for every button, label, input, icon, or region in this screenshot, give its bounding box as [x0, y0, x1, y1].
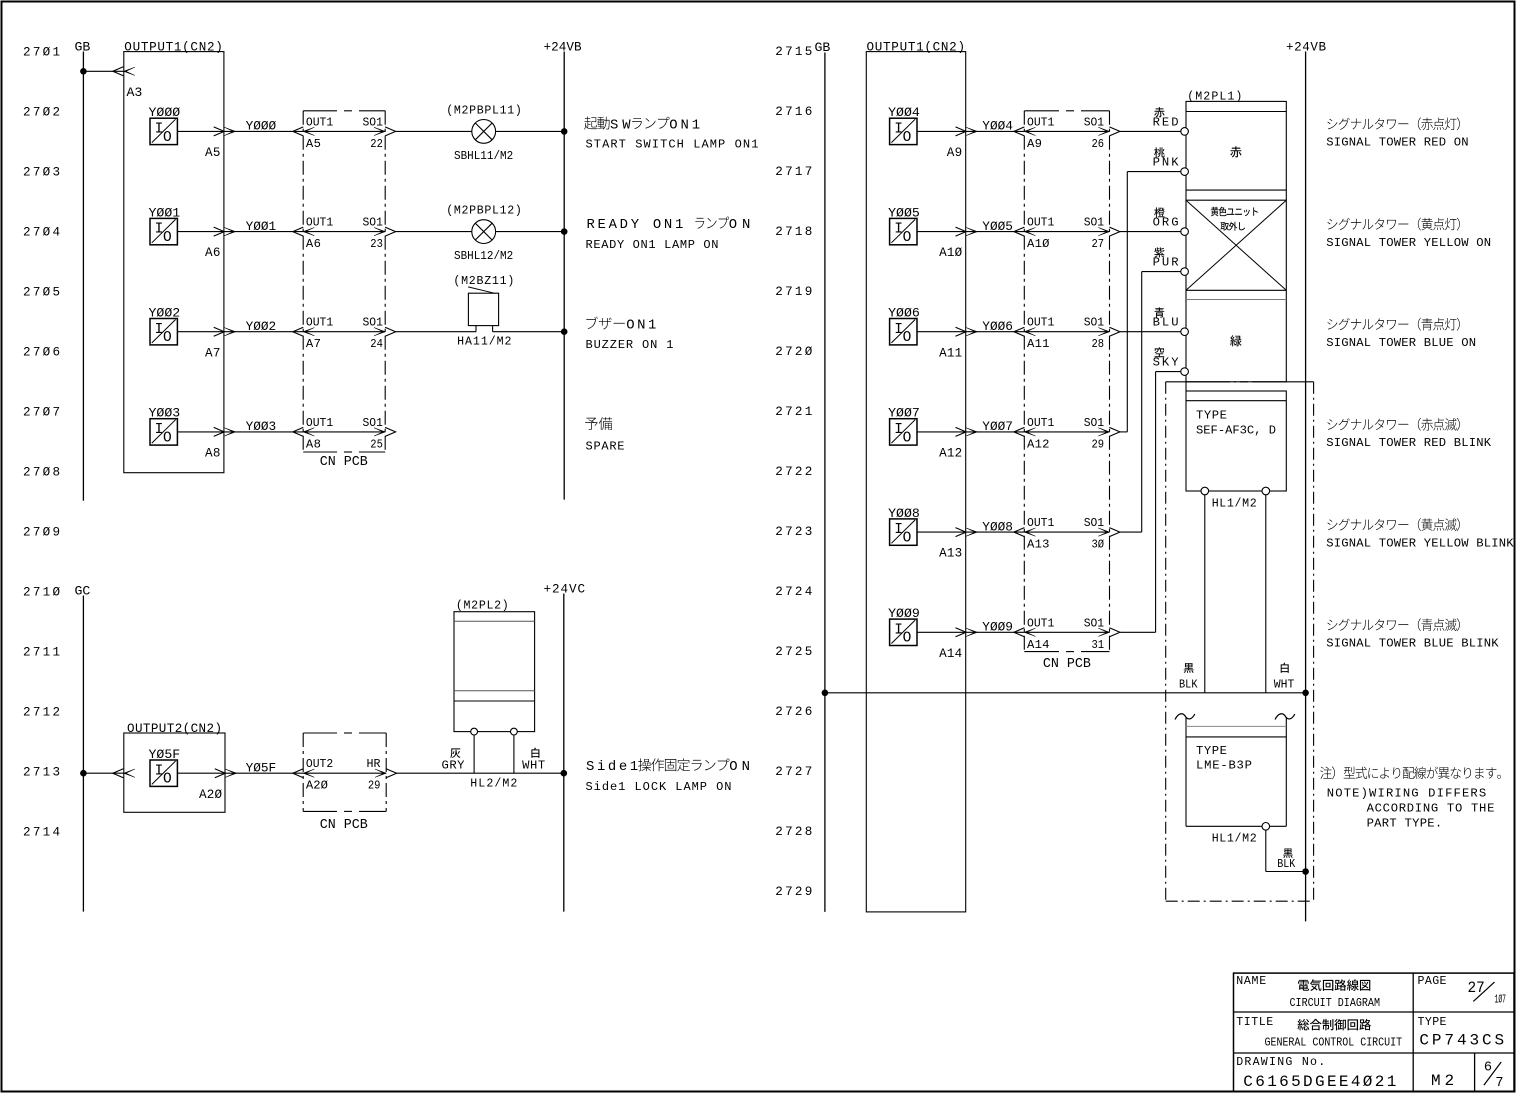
svg-text:SO1: SO1 [363, 115, 383, 129]
svg-text:HL1/M2: HL1/M2 [1212, 833, 1257, 846]
svg-text:YØØ4: YØØ4 [982, 119, 1013, 134]
wire Y004 through CN PCB right [1024, 130, 1109, 132]
svg-text:A1Ø: A1Ø [939, 246, 963, 260]
svg-text:SO1: SO1 [1084, 516, 1104, 530]
CN PCB right-half right crossing arrows row Y007 [1098, 428, 1109, 436]
connector pin A6 arrows out of OUTPUT1 [214, 227, 225, 236]
svg-text:28: 28 [1092, 337, 1105, 351]
caption signal tower row 2 JP [1327, 218, 1459, 231]
caption buzzer JP [586, 317, 656, 334]
svg-text:SIGNAL TOWER YELLOW BLINK: SIGNAL TOWER YELLOW BLINK [1326, 536, 1514, 550]
caption signal tower row 1 JP [1327, 117, 1459, 130]
bus GC rail [82, 596, 84, 912]
wire color label WHT (SEF) [1281, 663, 1289, 673]
segment green lamp label [1230, 335, 1241, 346]
svg-text:A8: A8 [205, 447, 220, 461]
svg-text:O: O [903, 531, 912, 547]
svg-text:7: 7 [1495, 1076, 1503, 1091]
wire color label BLU [1155, 307, 1165, 317]
connector pin A9 arrows out of OUTPUT1 right [956, 127, 967, 136]
svg-text:HL1/M2: HL1/M2 [1212, 498, 1257, 511]
svg-text:O: O [903, 330, 912, 346]
output element Y003 I/O symbol [150, 419, 177, 445]
segment yellow removed X cross [1186, 200, 1286, 290]
wire Y006 through CN PCB right [1024, 331, 1109, 333]
lamp SBHL12/M2 (ready lamp) [472, 220, 496, 244]
svg-text:SO1: SO1 [1084, 115, 1104, 129]
terminal circle BLK on SEF unit [1201, 487, 1209, 495]
svg-text:ORG: ORG [1153, 216, 1179, 230]
wire HR to lamp unit HL2 [396, 772, 564, 774]
CN PCB right-half left crossing arrows row Y005 [1014, 227, 1025, 236]
svg-text:GB: GB [815, 40, 831, 55]
wire Y007 through CN PCB right [1024, 431, 1109, 433]
svg-text:YØØ2: YØØ2 [246, 319, 277, 334]
svg-text:I: I [894, 322, 903, 338]
wire Y008 to CN PCB right [966, 531, 1025, 533]
svg-text:TITLE: TITLE [1236, 1016, 1273, 1029]
CN PCB right-half left crossing arrows row Y009 [1014, 628, 1025, 637]
connector pin A12 arrows out of OUTPUT1 right [956, 427, 967, 436]
svg-text:LME-B3P: LME-B3P [1196, 759, 1252, 773]
wire Y009 inside OUTPUT1 right [917, 631, 966, 633]
bus +24VB rail (right) [1305, 52, 1307, 922]
svg-text:31: 31 [1092, 638, 1105, 652]
wire Y009 through CN PCB right [1024, 631, 1109, 633]
alternative wiring dash-dot box [1165, 382, 1167, 901]
terminal circle GRY on HL2 [471, 728, 478, 735]
terminal circle WHT on HL2 [511, 728, 518, 735]
connector block OUTPUT1(CN2) box (right) [866, 52, 965, 912]
wire color label WHT [531, 748, 539, 758]
svg-text:A7: A7 [205, 346, 220, 360]
svg-text:BLK: BLK [1277, 857, 1296, 871]
CN PCB right-half right crossing arrows row Y006 [1098, 328, 1109, 336]
caption signal tower row 3 JP [1327, 318, 1459, 331]
svg-text:SIGNAL TOWER BLUE ON: SIGNAL TOWER BLUE ON [1326, 336, 1476, 350]
wire Y006 inside OUTPUT1 right [917, 331, 966, 333]
svg-text:I: I [894, 122, 903, 138]
output element Y005 I/O symbol [890, 218, 917, 244]
caption signal tower row 5 JP [1327, 518, 1459, 531]
svg-text:I: I [155, 222, 164, 238]
caption start switch lamp JP [584, 117, 700, 134]
svg-text:3Ø: 3Ø [1092, 538, 1105, 552]
node junction +24VB row 2704 [561, 228, 568, 235]
svg-text:DRAWING No.: DRAWING No. [1236, 1056, 1325, 1069]
title block dividers [1234, 1011, 1515, 1013]
wire Y001 to CN PCB [224, 231, 303, 233]
svg-text:WHT: WHT [1274, 678, 1295, 692]
wire WHT riser [513, 735, 515, 773]
svg-text:OUT1: OUT1 [306, 216, 333, 230]
svg-text:A14: A14 [1027, 638, 1050, 652]
svg-text:SBHL11/M2: SBHL11/M2 [454, 150, 513, 163]
svg-text:SO1: SO1 [363, 316, 383, 330]
svg-text:SIGNAL TOWER BLUE BLINK: SIGNAL TOWER BLUE BLINK [1326, 637, 1499, 651]
wire Y008 inside OUTPUT1 right [917, 531, 966, 533]
svg-text:SO1: SO1 [1084, 416, 1104, 430]
node junction GB return [822, 690, 829, 697]
svg-text:A14: A14 [939, 647, 962, 661]
svg-text:A12: A12 [939, 447, 962, 461]
connector pin A7 arrows out of OUTPUT1 [214, 327, 225, 336]
title block title JP [1297, 1019, 1371, 1031]
svg-text:O: O [163, 130, 172, 146]
wire Y005 to CN PCB right [966, 231, 1025, 233]
terminal circle BLK on LME unit [1262, 823, 1270, 831]
svg-text:I: I [155, 763, 164, 779]
svg-text:26: 26 [1092, 137, 1105, 151]
CN PCB right-half right crossing arrows row Y008 [1098, 528, 1109, 536]
svg-text:HA11/M2: HA11/M2 [457, 336, 511, 349]
svg-text:OUTPUT2(CN2): OUTPUT2(CN2) [127, 722, 222, 736]
svg-text:29: 29 [1092, 437, 1105, 451]
CN PCB right crossing arrows row Y003 [374, 428, 385, 436]
CN PCB left crossing arrows row Y002 [293, 327, 304, 336]
CN PCB right-half left crossing arrows row Y007 [1014, 427, 1025, 436]
wire WHT riser from SEF [1265, 495, 1267, 693]
svg-text:I: I [894, 522, 903, 538]
svg-text:TYPE: TYPE [1196, 744, 1227, 758]
svg-text:6: 6 [1484, 1061, 1492, 1076]
wire Y05F inside OUTPUT2 [177, 772, 225, 774]
svg-text:O: O [903, 230, 912, 246]
terminal circles on M2PL1 [1181, 128, 1189, 136]
svg-text:READY ON1 LAMP ON: READY ON1 LAMP ON [586, 238, 719, 252]
svg-text:YØØØ: YØØØ [246, 119, 277, 134]
connector pin A13 arrows out of OUTPUT1 right [956, 528, 967, 537]
wire Y002 through CN PCB [303, 331, 385, 333]
wire Y002 to buzzer [396, 331, 476, 333]
wire Y001 to lamp SBHL12 [396, 231, 472, 233]
caption signal tower row 4 JP [1327, 418, 1459, 431]
connector pin A10 arrows out of OUTPUT1 right [956, 227, 967, 236]
svg-text:A5: A5 [306, 137, 321, 151]
connector pin A5 arrows out of OUTPUT1 [214, 127, 225, 136]
wire Y005 to ORG terminal [1120, 231, 1181, 233]
wire Y004 to RED terminal [1120, 130, 1181, 132]
CN PCB 2 right crossing arrows [375, 769, 386, 777]
wire Y000 through CN PCB [303, 130, 385, 132]
svg-text:YØØ5: YØØ5 [982, 219, 1013, 234]
wire GB to +24VB return row 2726 [825, 692, 1306, 694]
CN PCB right-half left crossing arrows row Y006 [1014, 327, 1025, 336]
svg-text:(M2PBPL11): (M2PBPL11) [446, 104, 522, 117]
segment yellow unit removed text [1211, 207, 1258, 217]
svg-text:I: I [155, 122, 164, 138]
svg-text:SO1: SO1 [363, 416, 383, 430]
note about wiring JP [1320, 766, 1501, 779]
node junction +24VC row 2713 [561, 770, 568, 777]
output element Y000 I/O symbol [150, 118, 177, 144]
svg-text:TYPE: TYPE [1196, 408, 1227, 422]
CN PCB right-half left crossing arrows row Y008 [1014, 528, 1025, 537]
svg-text:YØ5F: YØ5F [246, 761, 277, 776]
interface board CN PCB box (right) [1023, 111, 1025, 652]
wire lamp SBHL11 to +24VB [496, 130, 565, 132]
wire color label GRY [450, 748, 460, 758]
svg-text:SO1: SO1 [1084, 616, 1104, 630]
svg-text:YØØ1: YØØ1 [246, 219, 277, 234]
svg-text:PART TYPE.: PART TYPE. [1367, 817, 1443, 831]
lamp unit HL2/M2 body [454, 612, 535, 732]
svg-text:SKY: SKY [1153, 356, 1180, 370]
wire SKY circle to SEF box edge [1185, 382, 1187, 391]
svg-text:271Ø: 271Ø [23, 586, 60, 600]
svg-text:O: O [163, 330, 172, 346]
svg-text:A2Ø: A2Ø [306, 779, 328, 793]
wire Y005 inside OUTPUT1 right [917, 231, 966, 233]
svg-text:(M2PL2): (M2PL2) [456, 600, 509, 613]
svg-text:22: 22 [370, 137, 383, 151]
wire Y006 to BLU terminal [1120, 331, 1181, 333]
wire color label PUR [1154, 247, 1164, 257]
svg-text:A1Ø: A1Ø [1027, 237, 1050, 251]
svg-text:A13: A13 [1027, 538, 1050, 552]
bus +24VB rail (left) [563, 52, 565, 500]
CN PCB right crossing arrows row Y001 [374, 228, 385, 236]
svg-text:ON1: ON1 [669, 117, 700, 133]
svg-text:O: O [903, 631, 912, 647]
wire color label BLK (SEF) [1184, 663, 1194, 673]
svg-text:I: I [894, 222, 903, 238]
svg-text:O: O [163, 772, 172, 788]
CN PCB right-half right crossing arrows row Y004 [1098, 127, 1109, 135]
CN PCB right-half right crossing arrows row Y005 [1098, 228, 1109, 236]
svg-text:PAGE: PAGE [1418, 975, 1447, 988]
svg-text:OUT1: OUT1 [306, 115, 333, 129]
svg-text:YØØ6: YØØ6 [982, 319, 1013, 334]
svg-text:OUT1: OUT1 [306, 316, 333, 330]
svg-text:A13: A13 [939, 547, 962, 561]
title block drawing name JP [1298, 979, 1370, 991]
svg-text:25: 25 [370, 437, 383, 451]
wire BLK from LME to +24VB [1265, 830, 1267, 871]
signal tower unit M2PL1 body [1186, 101, 1286, 381]
output element Y001 I/O symbol [150, 218, 177, 244]
svg-text:Side1: Side1 [586, 759, 638, 775]
wire Y009 to SKY terminal [1120, 631, 1156, 633]
caption side1 lock lamp JP [586, 758, 750, 775]
svg-text:WHT: WHT [522, 759, 545, 773]
connector block OUTPUT2(CN2) box [124, 733, 225, 812]
svg-text:HR: HR [367, 757, 381, 771]
wire Y006 to CN PCB right [966, 331, 1025, 333]
svg-text:SBHL12/M2: SBHL12/M2 [454, 250, 513, 263]
connector pin A14 arrows out of OUTPUT1 right [956, 628, 967, 637]
svg-text:OUT1: OUT1 [1027, 216, 1054, 230]
svg-text:I: I [155, 322, 164, 338]
svg-text:I: I [894, 622, 903, 638]
node GB junction at A3 wire [80, 68, 87, 75]
svg-text:TYPE: TYPE [1418, 1016, 1447, 1029]
svg-text:CN PCB: CN PCB [320, 818, 368, 833]
CN PCB left crossing arrows row Y001 [293, 227, 304, 236]
wire Y007 inside OUTPUT1 right [917, 431, 966, 433]
svg-text:+24VC: +24VC [544, 583, 586, 597]
svg-text:A9: A9 [1027, 137, 1042, 151]
terminal circle WHT on SEF unit [1262, 487, 1270, 495]
interface board CN PCB box (left) [302, 111, 304, 452]
wire Y003 through CN PCB [303, 431, 385, 433]
blink unit TYPE LME-B3P break marks [1175, 714, 1195, 720]
svg-text:YØØ9: YØØ9 [982, 620, 1013, 635]
wire Y004 inside OUTPUT1 right [917, 130, 966, 132]
svg-text:HL2/M2: HL2/M2 [470, 778, 517, 791]
svg-text:SIGNAL TOWER RED ON: SIGNAL TOWER RED ON [1326, 136, 1468, 150]
svg-text:OUT1: OUT1 [1027, 616, 1054, 630]
wire color label PNK [1154, 147, 1164, 157]
connector arrow A3 into OUTPUT1 [113, 67, 124, 76]
CN PCB right-half right crossing arrows row Y009 [1098, 628, 1109, 636]
svg-text:A9: A9 [947, 146, 962, 160]
connector pin A20 arrows out of OUTPUT2 [215, 769, 226, 778]
svg-text:A5: A5 [205, 146, 220, 160]
svg-text:BUZZER ON 1: BUZZER ON 1 [586, 338, 674, 352]
CN PCB left crossing arrows row Y000 [293, 127, 304, 136]
svg-text:GENERAL CONTROL CIRCUIT: GENERAL CONTROL CIRCUIT [1265, 1036, 1403, 1050]
wire Y001 inside OUTPUT1 [177, 231, 224, 233]
interface board CN PCB 2 box [302, 733, 304, 811]
svg-text:YØØ3: YØØ3 [246, 419, 277, 434]
node junction +24VB row 2702 [561, 128, 568, 135]
wire Y007 to PNK terminal [1120, 431, 1127, 433]
svg-text:A6: A6 [205, 246, 220, 260]
svg-text:O: O [903, 430, 912, 446]
svg-text:I: I [894, 422, 903, 438]
wire Y002 inside OUTPUT1 [177, 331, 224, 333]
svg-text:27: 27 [1092, 237, 1105, 251]
svg-text:272Ø: 272Ø [775, 345, 812, 359]
svg-text:29: 29 [368, 779, 381, 793]
svg-text:YØØ8: YØØ8 [982, 519, 1013, 534]
wire Y004 to CN PCB right [966, 130, 1025, 132]
svg-text:OUT1: OUT1 [1027, 316, 1054, 330]
svg-text:BLU: BLU [1153, 316, 1179, 330]
CN PCB right-half left crossing arrows row Y004 [1014, 127, 1025, 136]
bus GB rail (right) [824, 53, 826, 912]
svg-text:OUT1: OUT1 [306, 416, 333, 430]
output element Y004 I/O symbol [890, 118, 917, 144]
svg-text:A12: A12 [1027, 437, 1050, 451]
svg-text:NOTE)WIRING DIFFERS: NOTE)WIRING DIFFERS [1327, 787, 1486, 801]
svg-text:A11: A11 [939, 346, 962, 360]
title block outer box [1234, 973, 1515, 1091]
wire Y007 to CN PCB right [966, 431, 1025, 433]
caption signal tower row 6 JP [1327, 618, 1459, 631]
svg-text:SPARE: SPARE [586, 440, 625, 454]
output element Y05F I/O symbol [150, 760, 177, 786]
svg-text:24: 24 [370, 337, 383, 351]
connector pin A8 arrows out of OUTPUT1 [214, 427, 225, 436]
svg-text:OUT1: OUT1 [1027, 115, 1054, 129]
svg-text:YØØ7: YØØ7 [982, 419, 1013, 434]
svg-text:GC: GC [75, 584, 91, 599]
wire buzzer to +24VB [493, 331, 565, 333]
blink unit TYPE LME-B3P body [1185, 717, 1187, 826]
svg-text:CN PCB: CN PCB [320, 455, 368, 470]
M2PL1 bottom connection line to +24VB [1166, 381, 1222, 383]
node junction +24VB return [1302, 690, 1309, 697]
svg-text:GRY: GRY [442, 759, 466, 773]
output element Y002 I/O symbol [150, 319, 177, 345]
CN PCB right crossing arrows row Y000 [374, 127, 385, 135]
output element Y009 I/O symbol [890, 619, 917, 645]
bus GB rail (left) [82, 52, 84, 501]
wire Y008 through CN PCB right [1024, 531, 1109, 533]
node GC junction row 2713 [80, 770, 87, 777]
svg-text:I: I [155, 422, 164, 438]
svg-text:OUT2: OUT2 [306, 757, 333, 771]
svg-text:CIRCUIT DIAGRAM: CIRCUIT DIAGRAM [1290, 996, 1381, 1010]
svg-text:A6: A6 [306, 237, 321, 251]
wire color label BLK (LME) [1283, 849, 1293, 858]
svg-text:SO1: SO1 [1084, 316, 1104, 330]
wire Y000 inside OUTPUT1 [177, 130, 224, 132]
svg-text:NAME: NAME [1236, 975, 1266, 988]
node junction LME BLK on +24VB [1302, 868, 1309, 875]
wire GB to OUTPUT1 connector A3 [83, 70, 123, 72]
CN PCB 2 left crossing arrows [293, 769, 304, 778]
svg-text:A8: A8 [306, 437, 321, 451]
svg-text:READY ON1: READY ON1 [587, 217, 684, 233]
svg-text:ON1: ON1 [626, 318, 656, 334]
wire Y05F to CN PCB 2 [225, 772, 303, 774]
wire Y05F through CN PCB 2 [303, 772, 386, 774]
svg-text:SIGNAL TOWER RED BLINK: SIGNAL TOWER RED BLINK [1326, 436, 1491, 450]
wire BLK riser from SEF [1204, 495, 1206, 693]
svg-text:SEF-AF3C, D: SEF-AF3C, D [1196, 424, 1276, 438]
wire color label ORG [1154, 207, 1165, 217]
output element Y006 I/O symbol [890, 319, 917, 345]
svg-text:A11: A11 [1027, 337, 1050, 351]
wire lamp SBHL12 to +24VB [496, 231, 565, 233]
svg-text:A7: A7 [306, 337, 321, 351]
wire Y001 through CN PCB [303, 231, 385, 233]
connector arrow A20 into OUTPUT2 [113, 769, 124, 778]
wire GRY riser [473, 735, 475, 773]
svg-text:Side1 LOCK LAMP ON: Side1 LOCK LAMP ON [586, 780, 732, 794]
wire Y008 to PUR terminal [1120, 531, 1142, 533]
svg-text:RED: RED [1153, 115, 1179, 129]
wire Y000 to CN PCB [224, 130, 303, 132]
output element Y008 I/O symbol [890, 519, 917, 545]
svg-text:A3: A3 [127, 85, 143, 100]
wire Y002 to CN PCB [224, 331, 303, 333]
svg-text:PNK: PNK [1153, 156, 1180, 170]
svg-text:ACCORDING TO THE: ACCORDING TO THE [1367, 802, 1495, 816]
svg-text:OUT1: OUT1 [1027, 416, 1054, 430]
svg-text:SO1: SO1 [1084, 216, 1104, 230]
wire Y003 to CN PCB [224, 431, 303, 433]
svg-text:START SWITCH LAMP ON1: START SWITCH LAMP ON1 [586, 138, 759, 152]
svg-text:A2Ø: A2Ø [199, 788, 222, 802]
svg-text:GB: GB [75, 39, 91, 54]
caption spare JP [585, 417, 612, 430]
svg-text:23: 23 [370, 237, 383, 251]
svg-text:OUTPUT1(CN2): OUTPUT1(CN2) [867, 40, 966, 54]
svg-text:(M2PBPL12): (M2PBPL12) [446, 205, 522, 218]
lamp SBHL11/M2 (start switch lamp) [472, 119, 496, 143]
node junction +24VB row 2705 [561, 328, 568, 335]
svg-text:PUR: PUR [1153, 256, 1179, 270]
buzzer HA11/M2 symbol [468, 293, 498, 325]
svg-text:CP743CS: CP743CS [1419, 1032, 1504, 1050]
blink unit TYPE SEF-AF3C,D body [1186, 391, 1286, 491]
CN PCB left crossing arrows row Y003 [293, 427, 304, 436]
wire Y003 inside OUTPUT1 [177, 431, 224, 433]
